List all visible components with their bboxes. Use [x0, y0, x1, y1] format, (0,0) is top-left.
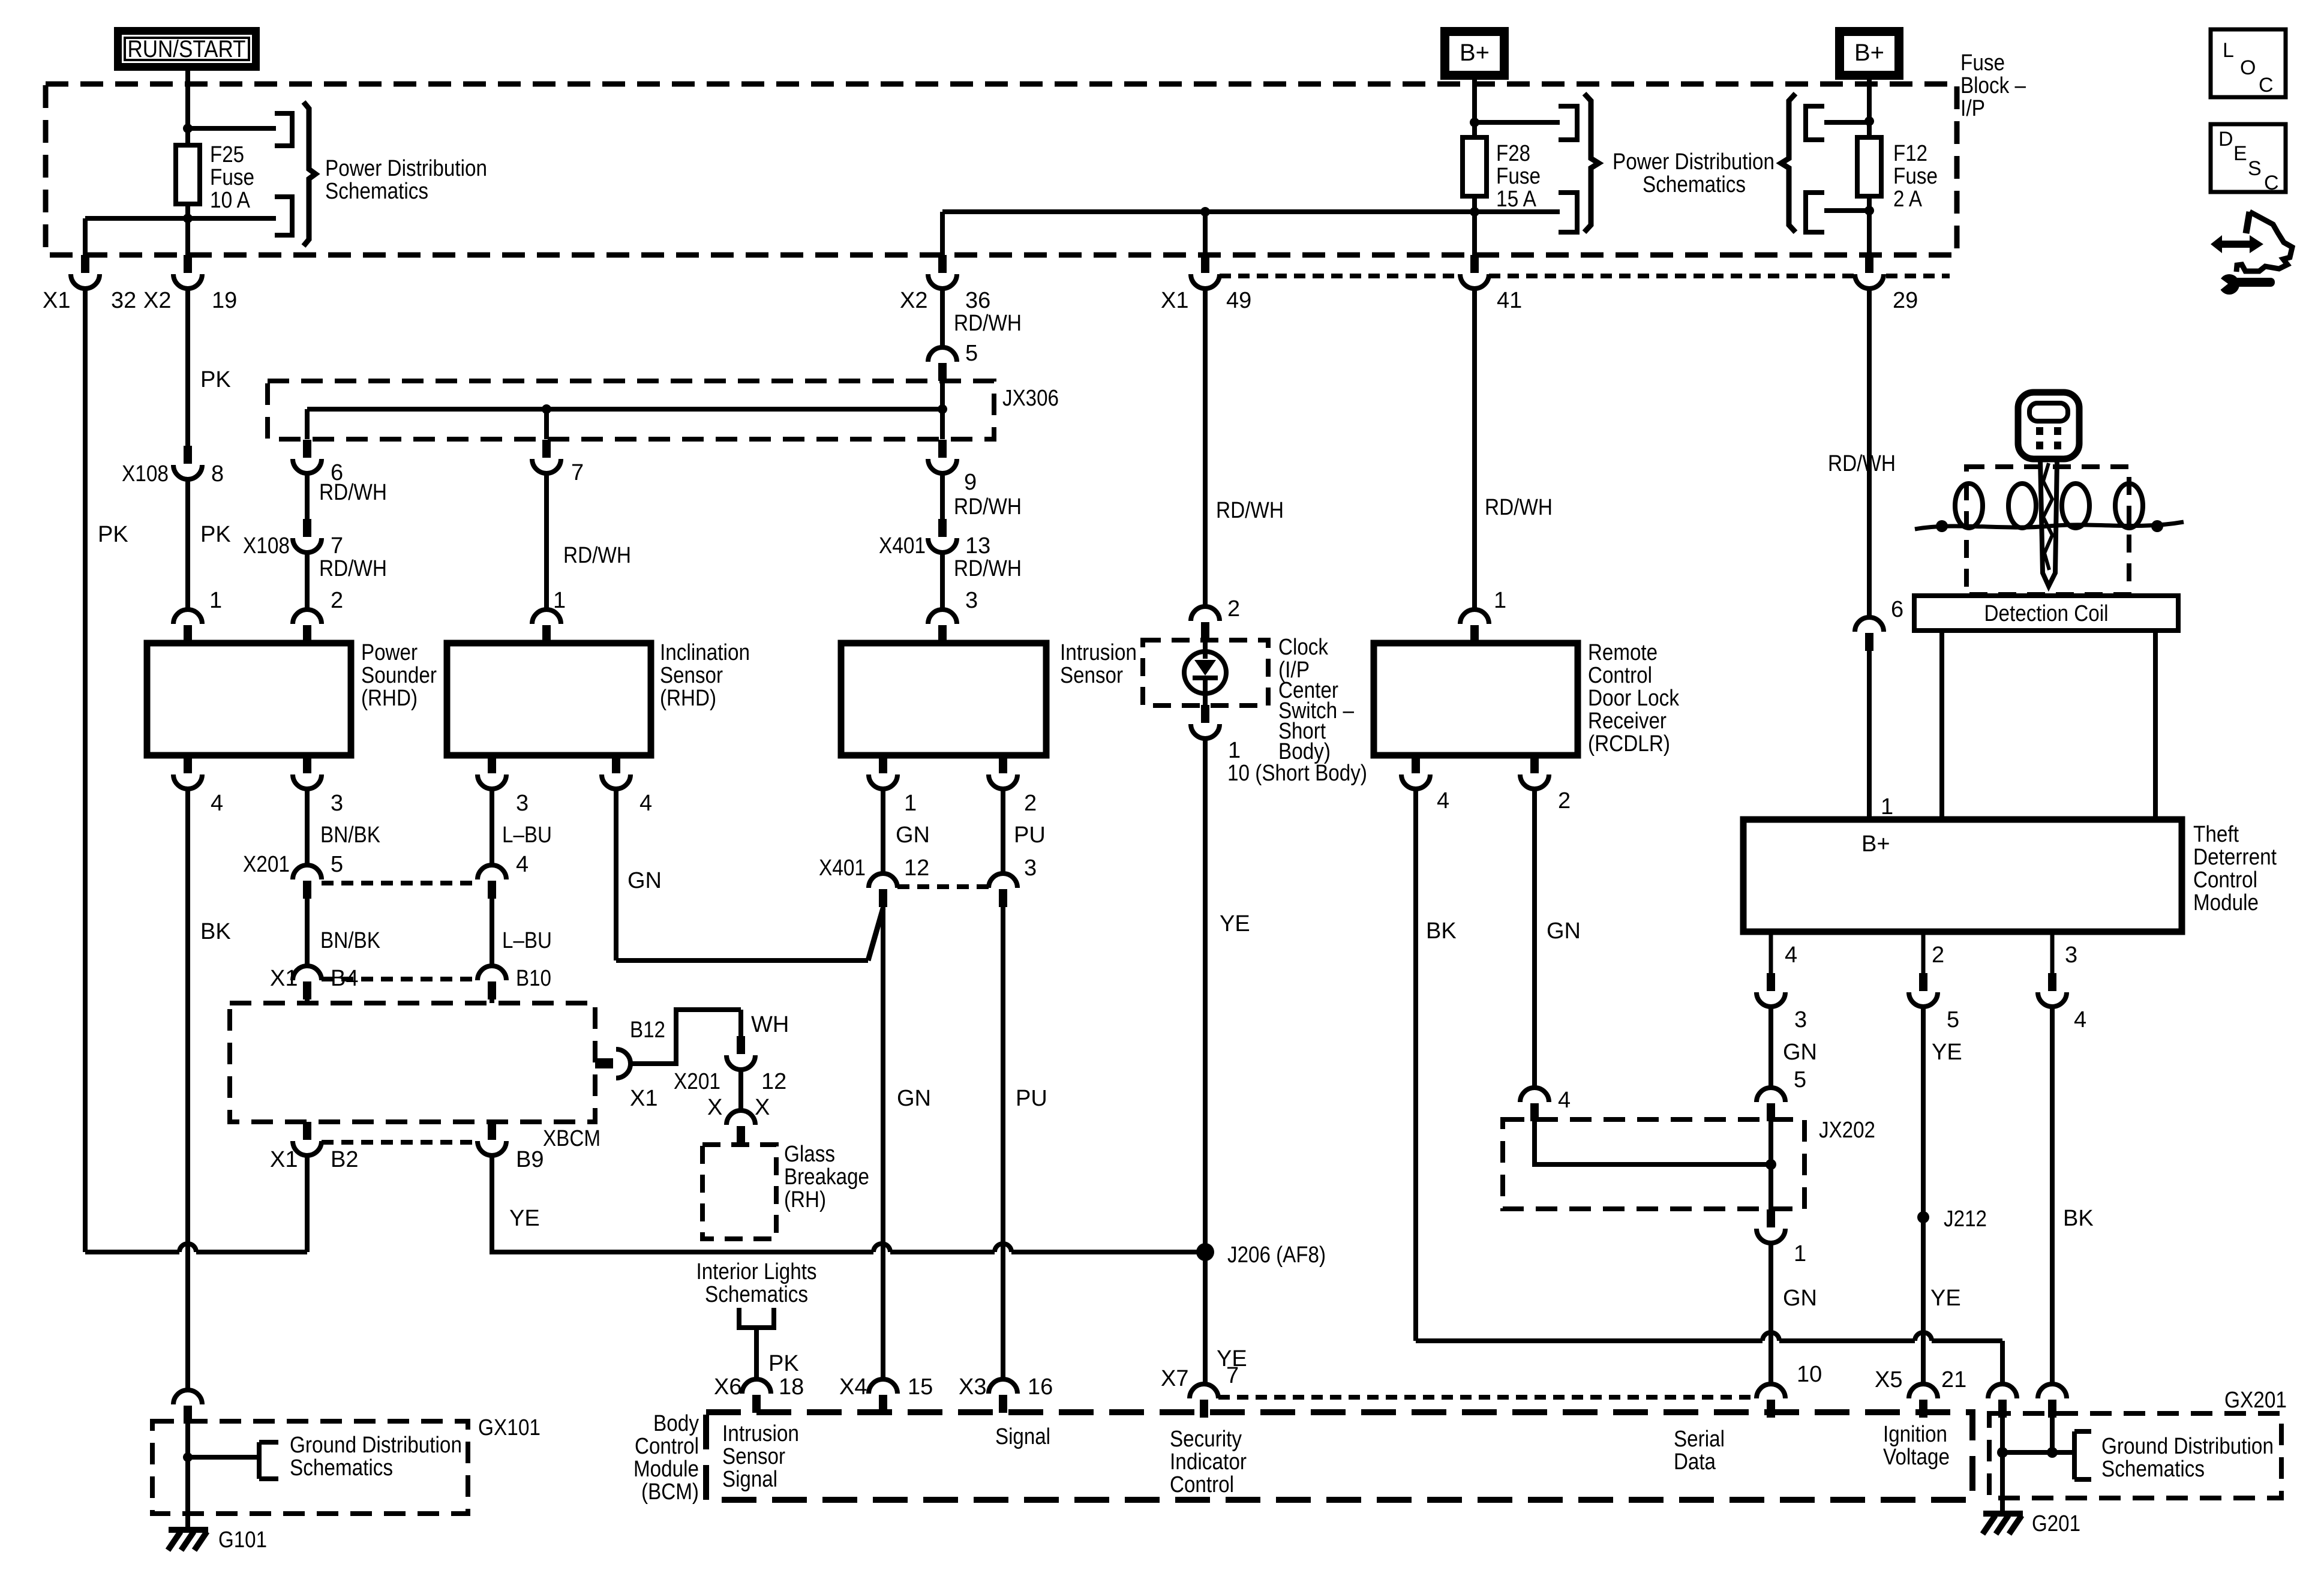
svg-text:36: 36 — [965, 288, 990, 313]
svg-text:PK: PK — [98, 522, 128, 547]
svg-text:10 A: 10 A — [210, 188, 251, 213]
junction F28 bottom — [1470, 207, 1479, 217]
B+ power tag (right) — [1835, 27, 1903, 80]
svg-text:RD/WH: RD/WH — [954, 311, 1022, 336]
wire X2-19 to X108-8 — [185, 289, 190, 446]
wire X108-8 to sounder pin 1 — [185, 478, 190, 610]
connector X108 pin 7 — [293, 519, 322, 553]
svg-text:BN/BK: BN/BK — [320, 822, 380, 848]
svg-text:Body): Body) — [1278, 739, 1331, 764]
svg-text:Sensor: Sensor — [660, 663, 723, 688]
wire sounder pin3 BN/BK to X201-5 — [305, 788, 310, 865]
svg-text:GN: GN — [1783, 1286, 1817, 1311]
wire conn6 to theft module pin 1 — [1867, 651, 1872, 819]
svg-text:Glass: Glass — [784, 1142, 835, 1167]
wire F28 to conn 41 — [1472, 212, 1477, 255]
svg-text:5: 5 — [331, 852, 343, 877]
wire X401-3 PU down to BCM X3-16 — [1001, 907, 1005, 1379]
connector RCDLR pin 1 — [1460, 610, 1489, 643]
svg-text:(RHD): (RHD) — [660, 686, 716, 711]
svg-text:9: 9 — [964, 470, 977, 495]
svg-text:Ground Distribution: Ground Distribution — [290, 1433, 462, 1458]
svg-text:3: 3 — [2065, 942, 2077, 968]
svg-text:X1: X1 — [270, 966, 298, 991]
wire JX306-6 to X108-7 — [305, 472, 310, 519]
RUN/START power tag — [114, 27, 260, 71]
connector X2 pin 36 — [928, 255, 957, 289]
wire intrusion pin2 PU to X401-3 — [1001, 788, 1005, 873]
svg-text:(RH): (RH) — [784, 1187, 826, 1212]
wire JX306-9 to X401-13 — [940, 472, 945, 519]
svg-text:Ignition: Ignition — [1883, 1422, 1947, 1447]
svg-text:X4: X4 — [839, 1374, 867, 1400]
svg-text:PU: PU — [1016, 1086, 1047, 1111]
svg-text:GN: GN — [897, 1086, 931, 1111]
LED indicator symbol in clock — [1184, 652, 1226, 694]
repair info icon (arrow through silhouette + wrench) — [2246, 212, 2250, 233]
connector inclination pin 3 — [478, 755, 506, 789]
svg-text:Schematics: Schematics — [705, 1282, 808, 1307]
svg-text:4: 4 — [516, 852, 529, 877]
wire hop over BK at 313 — [179, 1244, 196, 1252]
svg-text:B+: B+ — [1861, 831, 1890, 857]
svg-text:F25: F25 — [210, 142, 244, 167]
wire YE J206 run seg3 — [1011, 1250, 1205, 1254]
svg-text:4: 4 — [639, 791, 652, 816]
svg-text:Control: Control — [1588, 663, 1652, 688]
svg-text:X: X — [755, 1095, 770, 1120]
wire GX201 right internal — [2050, 1416, 2055, 1452]
svg-text:Module: Module — [2193, 890, 2259, 915]
svg-text:PU: PU — [1014, 822, 1046, 848]
svg-text:BK: BK — [200, 919, 231, 944]
connector into GX201 right — [2038, 1384, 2067, 1418]
svg-text:Door Lock: Door Lock — [1588, 686, 1680, 711]
junction GX201 right — [2047, 1447, 2058, 1458]
svg-text:41: 41 — [1497, 288, 1522, 313]
svg-text:Sensor: Sensor — [722, 1444, 785, 1469]
wire F25 top to stub — [188, 126, 276, 131]
wire sounder pin 4 BK down to GX101 — [185, 788, 190, 1390]
wire clock YE down to J206 — [1203, 737, 1208, 1245]
svg-text:13: 13 — [965, 533, 990, 559]
brace F12 power distribution — [1781, 94, 1795, 232]
wire F12 bottom to stub — [1824, 208, 1869, 213]
svg-text:D: D — [2218, 128, 2233, 151]
svg-text:1: 1 — [1494, 588, 1506, 613]
key blade cuts zigzag — [2043, 463, 2052, 570]
svg-text:G201: G201 — [2032, 1511, 2080, 1536]
wire B+ to F28 — [1472, 80, 1477, 122]
svg-text:GN: GN — [627, 868, 662, 893]
connector cavity 3 on pin4 wire — [1756, 973, 1785, 1007]
wire B2 YE down — [305, 1154, 310, 1252]
svg-text:Theft: Theft — [2193, 822, 2239, 847]
wire theft pin 4 stub — [1769, 932, 1773, 974]
connector X1 cavity B10 — [478, 966, 506, 999]
wire RCDLR pin4 BK down — [1413, 788, 1418, 1341]
component Theft Deterrent Control Module box — [1743, 819, 2182, 932]
svg-text:3: 3 — [516, 791, 529, 816]
svg-text:1: 1 — [904, 791, 917, 816]
connector cavity 4 on pin3 wire — [2038, 973, 2067, 1007]
svg-text:2: 2 — [1227, 596, 1240, 622]
svg-text:B9: B9 — [516, 1147, 544, 1172]
svg-text:Schematics: Schematics — [2101, 1457, 2205, 1482]
connector inclination pin 4 — [602, 755, 630, 789]
svg-text:2: 2 — [1558, 788, 1571, 813]
connector sounder pin 1 — [173, 610, 202, 643]
connector X1 cavity B4 — [293, 966, 322, 999]
wire B9 YE down — [490, 1154, 494, 1252]
wire GN serial data to BCM pin 10 — [1768, 1242, 1773, 1384]
svg-text:16: 16 — [1028, 1374, 1053, 1400]
svg-text:7: 7 — [571, 460, 584, 485]
svg-text:Breakage: Breakage — [784, 1164, 869, 1190]
svg-text:B2: B2 — [331, 1147, 358, 1172]
wire YE J206 to X7-7 — [1203, 1259, 1208, 1384]
detection coil dashed box — [1966, 467, 2129, 595]
svg-text:49: 49 — [1226, 288, 1251, 313]
wire X201-12 to X connector — [738, 1068, 743, 1110]
wire X401-13 to intrusion pin 3 — [940, 551, 945, 610]
svg-text:Intrusion: Intrusion — [722, 1421, 799, 1446]
svg-text:(RCDLR): (RCDLR) — [1588, 731, 1670, 757]
svg-text:4: 4 — [2074, 1007, 2086, 1032]
wire F25 bottom rail — [85, 216, 276, 221]
svg-text:Detection Coil: Detection Coil — [1984, 601, 2109, 626]
stub bracket F28 bottom — [1559, 193, 1577, 232]
wire X201-5 to X1-B4 — [305, 899, 310, 966]
component Intrusion Sensor box — [841, 643, 1046, 755]
module Body Control Module BCM dashed box — [706, 1412, 1972, 1500]
junction F28 top — [1470, 118, 1479, 127]
B+ power tag (left) — [1440, 27, 1509, 80]
svg-text:YE: YE — [1932, 1040, 1962, 1065]
wire JX306-7 to inclination pin 1 — [544, 472, 549, 610]
svg-text:Clock: Clock — [1278, 635, 1329, 660]
connector JX202 cavity 5 — [1756, 1088, 1785, 1121]
connector X401 cavity 3 — [989, 873, 1017, 907]
svg-text:Control: Control — [1170, 1472, 1234, 1497]
wire inclination pin4 GN down — [614, 788, 618, 960]
connector body rail dotted (right) — [1886, 274, 1950, 278]
connector body rail dotted (mid) — [1489, 274, 1856, 278]
svg-text:GN: GN — [896, 822, 930, 848]
svg-text:X1: X1 — [270, 1147, 298, 1172]
wire detection coil left leg — [1939, 631, 1944, 819]
wire intrusion pin1 GN to X401-12 — [881, 788, 885, 873]
svg-text:Fuse: Fuse — [210, 165, 254, 190]
connector body rail dotted (left) — [1220, 274, 1459, 278]
svg-text:(BCM): (BCM) — [641, 1479, 699, 1505]
svg-text:B+: B+ — [1460, 40, 1490, 66]
wire X108-7 to sounder pin 2 — [305, 551, 310, 610]
JX306 branch down to cavity 7 — [544, 409, 549, 439]
connector X-X glass breakage — [726, 1110, 755, 1144]
wire BK horizontal seg3 — [1932, 1338, 2002, 1343]
splice J212 — [1917, 1211, 1929, 1223]
wire JX202 internal from cavity 4 — [1535, 1121, 1771, 1164]
junction F12 top — [1864, 116, 1874, 126]
connector intrusion pin 3 — [928, 610, 957, 643]
connector X6 pin 18 — [742, 1379, 771, 1413]
wire inside GX101 to ground — [185, 1424, 190, 1530]
connector X5 pin 21 — [1909, 1384, 1938, 1418]
module XBCM dashed box — [230, 1003, 595, 1122]
svg-text:X3: X3 — [959, 1374, 986, 1400]
key symbol head — [2018, 392, 2079, 459]
svg-text:7: 7 — [1226, 1363, 1239, 1388]
connector X401 cavity 12 — [869, 873, 897, 907]
svg-text:6: 6 — [1891, 597, 1903, 622]
fuse F12 — [1867, 122, 1872, 137]
svg-text:B12: B12 — [630, 1017, 665, 1043]
wire PK/B2 junction horizontal left — [85, 1250, 179, 1254]
svg-text:RD/WH: RD/WH — [954, 556, 1022, 581]
svg-text:RD/WH: RD/WH — [319, 556, 387, 581]
wire X2-36 to JX306-5 — [940, 289, 945, 347]
svg-text:21: 21 — [1941, 1367, 1966, 1392]
wire WH down — [738, 1010, 743, 1036]
wire hop over PU — [995, 1244, 1011, 1252]
svg-text:GX201: GX201 — [2224, 1388, 2287, 1413]
svg-text:YE: YE — [1220, 911, 1250, 936]
connector theft pin 6 — [1855, 617, 1884, 651]
svg-text:X6: X6 — [714, 1374, 741, 1400]
svg-text:Sensor: Sensor — [1060, 663, 1123, 688]
wire F28 top to stub — [1475, 120, 1560, 125]
svg-text:Control: Control — [635, 1434, 699, 1459]
connector RCDLR pin 4 — [1401, 755, 1430, 789]
connector JX306 cavity 6 — [293, 440, 322, 473]
svg-text:Interior Lights: Interior Lights — [696, 1259, 817, 1284]
svg-text:4: 4 — [1437, 788, 1449, 813]
stub bracket ground distribution — [259, 1442, 278, 1479]
connector sounder pin 4 — [173, 755, 202, 789]
stub bracket ground distribution right — [2074, 1431, 2091, 1479]
bracket interior lights ref — [739, 1308, 774, 1328]
wire 29 RD/WH down — [1867, 289, 1872, 617]
wire F28 bottom rail to X2-36 branch — [942, 209, 1560, 214]
dotted connector link X401 12-3 — [897, 884, 989, 889]
DESC reference box — [2211, 124, 2286, 192]
svg-text:J206 (AF8): J206 (AF8) — [1227, 1242, 1326, 1268]
wire GX201 to ground — [2000, 1452, 2005, 1514]
svg-text:YE: YE — [509, 1206, 540, 1231]
svg-text:L–BU: L–BU — [502, 928, 552, 953]
stub bracket F12 bottom — [1806, 193, 1824, 232]
component RCDLR box — [1374, 643, 1578, 755]
wire JX202 internal vertical — [1768, 1121, 1773, 1209]
wire theft pin 3 stub — [2050, 932, 2055, 974]
svg-text:F28: F28 — [1496, 141, 1530, 166]
svg-text:RD/WH: RD/WH — [319, 480, 387, 505]
connector inclination pin 1 — [532, 610, 561, 643]
wire B12 to X201-12 — [629, 1010, 741, 1064]
svg-text:WH: WH — [751, 1012, 789, 1037]
wire GX201 left internal — [2000, 1416, 2005, 1452]
svg-text:L: L — [2223, 39, 2234, 62]
svg-text:5: 5 — [1947, 1007, 1959, 1032]
svg-text:3: 3 — [965, 588, 978, 613]
connector JX202 cavity 4 — [1520, 1088, 1549, 1121]
svg-text:GN: GN — [1783, 1040, 1817, 1065]
wire BK horizontal seg1 — [1416, 1338, 1762, 1343]
connector X1 pin 49 — [1191, 255, 1220, 289]
svg-text:2: 2 — [331, 588, 343, 613]
connector X3 pin 16 — [989, 1379, 1017, 1413]
wire RCDLR pin2 GN down — [1532, 788, 1537, 1088]
coil baseline wavy wire — [1915, 522, 2184, 529]
JX306 branch down to cavity 6 — [305, 409, 310, 439]
fuse block I/P dashed outline — [46, 84, 1957, 255]
junction GX201 left — [1997, 1447, 2008, 1458]
wire GN to JX202-5 — [1768, 1006, 1773, 1088]
svg-text:Block –: Block – — [1960, 73, 2026, 98]
connector cavity 5 on pin2 wire — [1909, 973, 1938, 1007]
svg-text:3: 3 — [1024, 855, 1037, 881]
svg-text:BK: BK — [1426, 918, 1457, 944]
wire GN diagonal merge — [868, 908, 883, 960]
svg-text:2 A: 2 A — [1893, 187, 1923, 212]
svg-text:7: 7 — [331, 533, 343, 559]
svg-text:12: 12 — [761, 1069, 786, 1094]
dotted connector link X201 — [322, 881, 478, 885]
wire branch to X1-49 — [1203, 212, 1208, 255]
wire 41 RD/WH to RCDLR pin 1 — [1472, 289, 1477, 610]
svg-text:C: C — [2259, 74, 2274, 97]
svg-text:BK: BK — [2063, 1206, 2094, 1231]
svg-text:Power Distribution: Power Distribution — [1613, 149, 1774, 175]
connector B12 female arc — [616, 1049, 630, 1078]
wire hop over GN serial — [1762, 1332, 1779, 1341]
svg-text:Fuse: Fuse — [1496, 164, 1541, 189]
wire F12 top to stub — [1824, 120, 1869, 125]
svg-text:Module: Module — [633, 1457, 699, 1482]
svg-text:4: 4 — [1558, 1088, 1571, 1113]
svg-text:1: 1 — [1881, 794, 1893, 819]
connector X201 cavity 12 (glass) — [726, 1036, 755, 1070]
junction F12 bottom — [1864, 206, 1874, 215]
svg-text:O: O — [2240, 56, 2256, 79]
svg-text:G101: G101 — [218, 1527, 267, 1553]
connector JX306 cavity 9 — [928, 440, 957, 473]
brace F25 power distribution — [304, 102, 316, 246]
svg-text:YE: YE — [1930, 1286, 1961, 1311]
wire X201-4 to B10 — [490, 899, 494, 966]
svg-text:JX306: JX306 — [1002, 386, 1059, 411]
junction F25 top — [183, 124, 193, 133]
connector X108 pin 8 — [173, 446, 202, 479]
svg-text:BN/BK: BN/BK — [320, 928, 380, 953]
dotted connector link X1 B4-B10 — [322, 977, 478, 981]
wire into JX306 bus — [940, 381, 945, 409]
svg-text:1: 1 — [1794, 1241, 1806, 1266]
svg-text:B10: B10 — [516, 966, 551, 991]
wire GX201 bus — [2002, 1450, 2074, 1455]
wire hop over GN — [873, 1244, 890, 1252]
wire PK/B2 junction horizontal right — [196, 1250, 307, 1254]
svg-text:Sounder: Sounder — [361, 663, 437, 688]
svg-text:Power Distribution: Power Distribution — [325, 156, 487, 181]
connector into GX201 left — [1988, 1384, 2017, 1418]
svg-text:Signal: Signal — [722, 1467, 777, 1492]
svg-text:J212: J212 — [1944, 1206, 1987, 1232]
wire branch to X2-36 — [940, 212, 945, 255]
connector JX306 cavity 5 — [928, 347, 957, 381]
svg-text:I/P: I/P — [1960, 96, 1985, 121]
svg-text:3: 3 — [331, 791, 343, 816]
wire B+ to F12 — [1867, 80, 1872, 121]
junction block JX306 dashed outline — [268, 381, 994, 439]
wire X1-32 PK down left side — [83, 289, 88, 1252]
svg-text:8: 8 — [211, 461, 224, 487]
JX306 internal bus wire — [307, 407, 942, 412]
coil terminal right — [2151, 520, 2163, 532]
component Power Sounder (RHD) box — [147, 643, 351, 755]
JX306 branch down to cavity 9 — [940, 409, 945, 439]
key blade outline — [2040, 459, 2057, 586]
connector sounder pin 2 — [293, 610, 322, 643]
svg-text:12: 12 — [904, 855, 929, 881]
svg-text:S: S — [2248, 157, 2262, 180]
dotted connector link B2-B9 — [322, 1140, 478, 1145]
svg-text:Signal: Signal — [995, 1424, 1050, 1449]
junction node to X1-49 — [1200, 207, 1210, 217]
svg-text:Control: Control — [2193, 867, 2257, 893]
svg-text:Fuse: Fuse — [1960, 50, 2005, 76]
brace F28 power distribution — [1584, 94, 1599, 232]
coil winding loops — [1955, 484, 1983, 528]
svg-text:PK: PK — [768, 1351, 799, 1376]
connector sounder pin 3 — [293, 755, 322, 789]
svg-text:GX101: GX101 — [478, 1415, 541, 1440]
stub bracket F28 top — [1559, 106, 1577, 140]
svg-text:F12: F12 — [1893, 141, 1927, 166]
wire inclination pin3 L-BU to X201-4 — [490, 788, 494, 865]
svg-text:X401: X401 — [879, 533, 926, 559]
svg-text:Ground Distribution: Ground Distribution — [2101, 1434, 2274, 1459]
svg-text:Receiver: Receiver — [1588, 709, 1667, 734]
wire hop over YE — [1915, 1332, 1932, 1341]
svg-text:Schematics: Schematics — [325, 179, 428, 204]
connector X7 pin 7 — [1190, 1384, 1218, 1418]
wire F25 to X2-19 — [185, 218, 190, 255]
svg-text:2: 2 — [1024, 791, 1037, 816]
wire to ground distribution stub — [188, 1455, 259, 1460]
svg-text:15 A: 15 A — [1496, 187, 1537, 212]
svg-text:Intrusion: Intrusion — [1060, 640, 1137, 665]
component Clock dashed box — [1143, 640, 1268, 706]
svg-text:1: 1 — [1228, 738, 1241, 763]
svg-text:1: 1 — [553, 588, 566, 613]
wire RUN/START to F25 — [185, 71, 190, 128]
svg-text:X108: X108 — [243, 533, 290, 559]
connector RCDLR pin 2 — [1520, 755, 1549, 789]
svg-text:X1: X1 — [43, 288, 70, 313]
connector intrusion pin 2 — [989, 755, 1017, 789]
connector clock pin 1 — [1191, 705, 1220, 739]
svg-text:RD/WH: RD/WH — [1485, 495, 1553, 520]
connector pin 41 — [1460, 255, 1489, 289]
svg-text:Inclination: Inclination — [660, 640, 750, 665]
svg-text:29: 29 — [1893, 288, 1918, 313]
fuse F25 — [185, 128, 190, 145]
svg-text:1: 1 — [209, 588, 222, 613]
svg-text:X2: X2 — [143, 288, 171, 313]
wire BK down to GX201 — [2050, 1006, 2055, 1384]
